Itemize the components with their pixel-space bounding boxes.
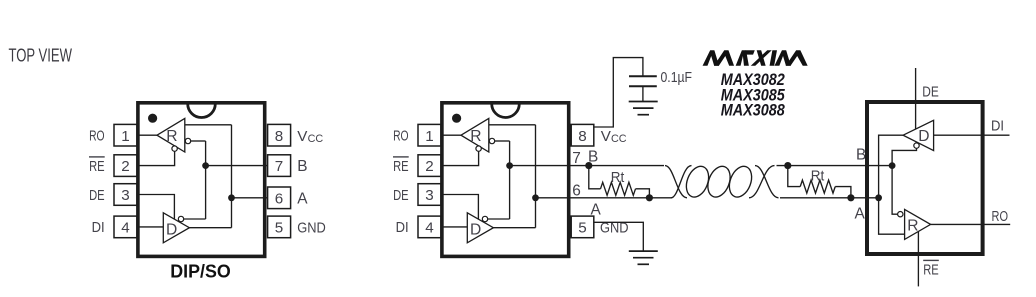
- wire pin7 B line to cable: [510, 165, 664, 167]
- pin 5 box (U2): [571, 216, 594, 238]
- resistor Rt (left termination): [589, 166, 601, 189]
- junction dot B/Rt (right): [784, 162, 791, 169]
- svg-text:2: 2: [425, 158, 433, 175]
- svg-text:8: 8: [578, 128, 586, 145]
- svg-text:DE: DE: [393, 187, 409, 204]
- svg-text:RO: RO: [89, 128, 105, 145]
- svg-text:DE: DE: [922, 83, 939, 100]
- pin 3 box: [114, 184, 137, 206]
- svg-text:D: D: [166, 222, 177, 239]
- pin 7 box: [268, 155, 291, 177]
- wire A junction to D output (U3): [879, 135, 904, 198]
- wire DE (U3): [915, 68, 917, 129]
- svg-text:CC: CC: [611, 133, 627, 145]
- pin 4 box: [114, 216, 137, 238]
- svg-text:D: D: [470, 222, 481, 239]
- wire D inv output bubble to B bus: [184, 218, 206, 220]
- pin-1 dot: [148, 114, 157, 123]
- wire A bus to pin6: [232, 197, 268, 199]
- junction dot B/Rt (left): [585, 162, 592, 169]
- junction dot B bus / pin7: [506, 162, 513, 169]
- wire pin5 GND to ground: [594, 222, 644, 251]
- R inverting input bubble (U3): [898, 212, 903, 217]
- driver D triangle: [163, 213, 189, 243]
- svg-text:7: 7: [572, 150, 581, 167]
- wire pin2 (RE) to R enable bubble: [137, 151, 175, 165]
- pin 2 box: [418, 155, 441, 177]
- wire D inv output bubble to B bus: [488, 218, 510, 220]
- wire pin3 (DE) to D enable: [441, 195, 479, 220]
- wire pin4 (DI) to D input: [137, 226, 164, 228]
- wire pin1 to R output: [137, 134, 158, 136]
- pin 8 box: [268, 124, 291, 146]
- wire R inv input bubble to B bus: [191, 140, 206, 142]
- wire D output to A bus: [493, 227, 535, 229]
- svg-text:7: 7: [275, 158, 283, 175]
- junction dot A/Rt (right): [847, 194, 854, 201]
- svg-text:A: A: [855, 205, 866, 222]
- svg-text:MAX3088: MAX3088: [721, 102, 785, 120]
- package notch: [188, 104, 216, 118]
- svg-text:0.1µF: 0.1µF: [661, 70, 693, 86]
- wire A line to U3: [780, 197, 879, 199]
- svg-text:TOP VIEW: TOP VIEW: [9, 45, 73, 66]
- svg-text:CC: CC: [308, 133, 324, 145]
- svg-text:DIP/SO: DIP/SO: [170, 261, 231, 282]
- pin-1 dot: [452, 114, 461, 123]
- svg-text:D: D: [918, 128, 929, 145]
- svg-text:2: 2: [121, 158, 129, 175]
- receiver R triangle: [157, 118, 185, 152]
- junction dot A (U3): [875, 194, 882, 201]
- wire D output to A bus: [189, 227, 231, 229]
- svg-text:Rt: Rt: [811, 167, 825, 184]
- A bus vertical: [231, 125, 233, 228]
- svg-text:5: 5: [578, 220, 586, 237]
- pin 1 box: [418, 124, 441, 146]
- pin 3 box: [418, 184, 441, 206]
- D inverting output bubble: [178, 216, 183, 221]
- junction dot A/Rt (left): [646, 194, 653, 201]
- svg-text:DI: DI: [92, 219, 105, 236]
- driver D triangle (U3, points left): [903, 120, 934, 150]
- wire D inv output bubble to B junction (U3): [892, 148, 916, 166]
- wire pin3 (DE) to D enable: [137, 195, 175, 220]
- receiver R triangle: [461, 118, 489, 152]
- wire R non-inv input to A bus: [489, 124, 536, 126]
- svg-text:1: 1: [425, 128, 433, 145]
- R inverting input bubble: [185, 138, 190, 143]
- svg-text:1: 1: [121, 128, 129, 145]
- wire pin2 (RE) to R enable bubble: [441, 151, 479, 165]
- ground (pin 5): [629, 250, 658, 252]
- resistor Rt (right termination): [788, 166, 800, 187]
- wire pin4 (DI) to D input: [441, 226, 468, 228]
- wire RO (U3): [931, 223, 1011, 225]
- svg-text:6: 6: [572, 182, 581, 199]
- svg-text:4: 4: [121, 220, 129, 237]
- svg-text:RE: RE: [923, 261, 939, 278]
- junction dot A bus / pin6: [532, 194, 539, 201]
- R inverting input bubble: [489, 138, 494, 143]
- IC package body: [442, 103, 569, 257]
- junction dot B (U3): [889, 162, 896, 169]
- capacitor C1 0.1uF: [629, 75, 657, 77]
- svg-text:8: 8: [275, 128, 283, 145]
- svg-text:4: 4: [425, 220, 433, 237]
- pin 5 box: [268, 216, 291, 238]
- svg-text:R: R: [470, 128, 481, 145]
- svg-text:DI: DI: [396, 219, 409, 236]
- R enable bubble: [172, 146, 177, 151]
- D inverting output bubble (U3): [914, 143, 919, 148]
- wire B bus to pin7: [206, 165, 268, 167]
- svg-text:A: A: [297, 190, 308, 207]
- svg-text:DI: DI: [991, 118, 1004, 135]
- junction dot B bus / pin7: [202, 162, 209, 169]
- B bus vertical: [509, 141, 511, 219]
- ground (cap): [629, 101, 658, 103]
- pin 6 box: [268, 187, 291, 209]
- wire DI (U3): [934, 134, 1010, 136]
- package notch: [492, 104, 520, 118]
- svg-text:3: 3: [121, 187, 129, 204]
- svg-text:GND: GND: [297, 220, 326, 237]
- pin 2 box: [114, 155, 137, 177]
- driver D triangle: [467, 213, 493, 243]
- svg-text:R: R: [166, 128, 177, 145]
- B bus vertical: [205, 141, 207, 219]
- svg-text:B: B: [297, 158, 307, 175]
- R enable bubble: [476, 146, 481, 151]
- svg-text:B: B: [856, 147, 866, 164]
- wire pin1 to R output: [441, 134, 462, 136]
- wire VCC to bypass cap: [594, 58, 643, 127]
- receiver R triangle (U3, points right): [905, 209, 931, 239]
- wire R non-inv input to A bus: [185, 124, 232, 126]
- svg-text:3: 3: [425, 187, 433, 204]
- wire RE (U3): [917, 230, 919, 286]
- IC U3 (transceiver 2) body: [867, 102, 983, 254]
- wire B line to U3: [777, 165, 893, 167]
- pin 1 box: [114, 124, 137, 146]
- pin 8 box (U2): [571, 124, 594, 146]
- wire R inv input bubble to B bus: [495, 140, 510, 142]
- wire pin6 A line to cable: [536, 197, 673, 199]
- svg-text:RO: RO: [992, 208, 1009, 225]
- MAXIM logo: [703, 50, 811, 66]
- svg-text:Rt: Rt: [611, 169, 625, 186]
- wire A junction to R non-inv input (U3): [879, 198, 905, 234]
- svg-text:5: 5: [275, 220, 283, 237]
- D inverting output bubble: [482, 216, 487, 221]
- svg-text:RE: RE: [89, 158, 105, 175]
- svg-text:6: 6: [275, 190, 283, 207]
- pin 4 box: [418, 216, 441, 238]
- svg-text:RE: RE: [393, 158, 409, 175]
- wire B junction to R inv input bubble (U3): [892, 166, 897, 215]
- junction dot A bus / pin6: [228, 194, 235, 201]
- A bus vertical: [535, 125, 537, 228]
- svg-text:R: R: [907, 218, 918, 235]
- twisted-pair cable: [665, 166, 687, 198]
- IC package body: [138, 103, 265, 257]
- svg-text:RO: RO: [393, 128, 409, 145]
- svg-text:DE: DE: [89, 187, 105, 204]
